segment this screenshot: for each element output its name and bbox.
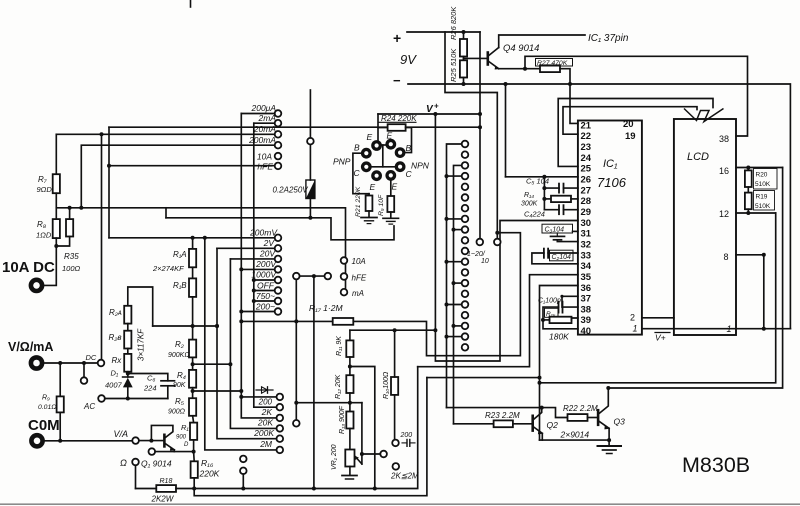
- svg-text:37: 37: [581, 294, 592, 305]
- scan edge bottom: [0, 503, 800, 505]
- wire wiper to bottom rail: [313, 276, 315, 488]
- fuse input contact: [307, 138, 314, 145]
- svg-text:VR₁ 200: VR₁ 200: [331, 444, 338, 470]
- svg-text:30: 30: [581, 218, 592, 229]
- wire R22 to Q3 base: [588, 417, 598, 419]
- wire 1000V contact: [254, 279, 275, 281]
- resistor R15 180K: [545, 308, 559, 317]
- svg-text:+: +: [393, 30, 401, 46]
- transistor Q2: [531, 416, 534, 431]
- socket NPN E top: [385, 139, 396, 150]
- svg-text:PNP: PNP: [333, 157, 351, 167]
- svg-text:29: 29: [581, 207, 592, 218]
- svg-text:C₃104: C₃104: [545, 227, 565, 234]
- voltage range contacts: [275, 235, 282, 242]
- wire IC1 pin2 to LCD: [642, 317, 674, 319]
- resistor R23 2.2M: [494, 420, 513, 427]
- wire R2-R4 tap: [192, 357, 194, 370]
- svg-text:R₂ᴀ: R₂ᴀ: [109, 308, 122, 317]
- svg-text:27: 27: [581, 185, 592, 196]
- svg-text:2mA: 2mA: [258, 113, 277, 123]
- wire bus B to R23: [454, 423, 494, 425]
- svg-text:C0M: C0M: [28, 417, 60, 434]
- resistor R4 90K: [189, 370, 196, 388]
- svg-text:Q4 9014: Q4 9014: [503, 43, 539, 54]
- transistor Q3: [597, 410, 600, 425]
- resistor R19 510K: [747, 187, 749, 193]
- svg-text:R₉: R₉: [42, 395, 50, 402]
- svg-text:C₂104: C₂104: [552, 254, 572, 261]
- wire R11 top rail: [350, 329, 436, 331]
- wire hFE V+ long rail: [109, 126, 480, 128]
- svg-text:R24 220K: R24 220K: [381, 114, 417, 123]
- wire R26 top rail down to V+ pole: [479, 32, 481, 239]
- current range contacts: [275, 110, 282, 117]
- svg-text:20: 20: [623, 119, 634, 130]
- resistor R2B: [127, 324, 129, 331]
- svg-text:22: 22: [581, 131, 592, 142]
- wire NPN E to R9 10ohm: [390, 181, 392, 196]
- wire LCD pin12 row: [736, 212, 776, 214]
- svg-text:38: 38: [581, 304, 592, 315]
- svg-text:34: 34: [581, 261, 592, 272]
- resistor R25 510K: [463, 57, 465, 61]
- svg-text:12: 12: [719, 209, 729, 219]
- svg-text:510K: 510K: [755, 203, 771, 210]
- svg-text:4007: 4007: [105, 381, 123, 390]
- potentiometer VR1 200: [349, 429, 351, 450]
- capacitor C3 symbol: [556, 233, 558, 236]
- wire lower rail to R16: [194, 378, 427, 496]
- svg-text:33: 33: [581, 250, 592, 261]
- wire hFE branch: [108, 127, 110, 238]
- wire -9V rail: [408, 84, 790, 329]
- capacitor C3 104 label box: [542, 224, 573, 233]
- svg-text:V+: V+: [655, 333, 666, 343]
- svg-text:R₁₁ 9K: R₁₁ 9K: [336, 336, 343, 356]
- wire 20V contact to bus: [230, 258, 274, 260]
- wire R25-R26 junction to Q4 base: [464, 57, 488, 59]
- wire 20mA contact to R7: [56, 133, 274, 135]
- switch wiper pair 1000V section: [293, 273, 300, 280]
- svg-text:E: E: [387, 131, 393, 141]
- wire 200mA contact to shunt junction: [81, 145, 274, 208]
- contact V drop: [83, 363, 85, 377]
- ground R21: [361, 217, 377, 219]
- wire R23 to Q2 base: [513, 423, 532, 425]
- contact 2K-2M: [393, 463, 400, 470]
- wire emitter node up-over to LCD pin38: [525, 56, 748, 136]
- IC IC1 7106 body: [578, 121, 642, 335]
- socket PNP C: [361, 161, 372, 172]
- svg-text:R₁₇ 1·2M: R₁₇ 1·2M: [309, 303, 343, 313]
- svg-text:E: E: [370, 182, 376, 192]
- svg-text:10A: 10A: [352, 257, 366, 266]
- wire wiper circle down through R17 line to ohm wiper: [295, 279, 297, 420]
- svg-text:DC: DC: [86, 353, 97, 362]
- fuse 0.2A250V: [309, 145, 311, 181]
- svg-text:35: 35: [581, 272, 592, 283]
- wire R24 right to NPN B: [405, 128, 412, 153]
- resistor R27 470K: [540, 65, 560, 72]
- resistor R12 20K: [349, 357, 351, 375]
- capacitor C2 104: [548, 252, 578, 254]
- wire 200V contact: [241, 268, 274, 270]
- svg-text:2M: 2M: [259, 439, 273, 449]
- wire Q2/Q3 emitters to ground: [541, 433, 543, 440]
- svg-text:26: 26: [581, 174, 592, 185]
- svg-text:C₄224: C₄224: [524, 210, 545, 219]
- resistor R16 220K: [193, 452, 196, 462]
- svg-text:2V: 2V: [263, 238, 276, 248]
- wire Q4 emitter node: [499, 68, 540, 70]
- wire rail pin36 branch lower: [427, 377, 540, 379]
- wire IC1 pin1 V+ row: [642, 328, 791, 330]
- ground R9 socket: [383, 217, 399, 219]
- svg-text:Rx: Rx: [112, 356, 123, 365]
- svg-text:C₁100p: C₁100p: [538, 298, 561, 305]
- svg-text:2K2W: 2K2W: [151, 495, 175, 504]
- svg-text:+: +: [434, 102, 439, 111]
- svg-text:R21 220K: R21 220K: [355, 186, 362, 217]
- svg-text:9V: 9V: [400, 52, 417, 67]
- resistor R22 2.2M: [568, 414, 588, 421]
- svg-text:Q3: Q3: [614, 417, 626, 427]
- wire AC row to D1 and C6: [105, 398, 168, 400]
- wire V jack row: [44, 362, 98, 364]
- wire IC1 pin30 to R11 top rail: [435, 114, 578, 361]
- svg-text:2K≦2M: 2K≦2M: [390, 472, 419, 481]
- wire 2mA contact to bus: [254, 122, 275, 124]
- wire DC contact from 20mA line: [101, 134, 103, 359]
- wire fuse row: [166, 218, 394, 240]
- wire IC1 pin36 to Q2 emitter ground line: [540, 286, 578, 441]
- resistor R2 900K: [189, 340, 196, 358]
- svg-text:R₂: R₂: [175, 340, 184, 349]
- wire socket E-E link: [381, 144, 387, 146]
- svg-text:20V: 20V: [259, 249, 276, 259]
- diode D1 4007: [127, 372, 129, 377]
- resistor R21 220K: [368, 194, 370, 196]
- svg-text:LCD: LCD: [687, 151, 709, 163]
- wire LCD pin16 row: [736, 167, 783, 169]
- svg-text:16: 16: [719, 166, 729, 176]
- wire bus A to Q2 collector and R22: [447, 408, 568, 418]
- svg-text:200mA: 200mA: [248, 135, 276, 145]
- bus 20V/20K vertical: [230, 259, 276, 429]
- svg-text:D: D: [184, 442, 189, 448]
- wire R24 left to PNP E and V+ rail: [378, 128, 388, 142]
- wire R12-R13 junction on wiper line: [349, 393, 351, 412]
- svg-text:0.2A250V: 0.2A250V: [273, 186, 309, 195]
- svg-text:Q₁ 9014: Q₁ 9014: [141, 459, 172, 469]
- wire fuse top: [309, 90, 311, 138]
- svg-text:R25 510K: R25 510K: [449, 48, 458, 82]
- svg-text:C: C: [354, 168, 361, 178]
- svg-text:750~: 750~: [256, 291, 275, 301]
- svg-text:B: B: [354, 143, 360, 153]
- resistor R5 900ohm: [189, 398, 196, 416]
- svg-text:20mA: 20mA: [253, 124, 277, 134]
- wire R1 to Q1 emitter row: [193, 440, 195, 452]
- wire + rail down to switch pole: [445, 32, 497, 239]
- contact cap test 200: [392, 440, 399, 447]
- wire +9V top rail: [407, 31, 480, 33]
- bus 2V/200K vertical: [217, 248, 277, 438]
- svg-text:20K: 20K: [257, 418, 273, 428]
- resistor R20 510K: [747, 168, 749, 171]
- svg-text:R26 820K: R26 820K: [449, 6, 458, 40]
- svg-text:R₁₆: R₁₆: [201, 458, 214, 468]
- resistor R26 820K: [463, 32, 465, 39]
- svg-text:10: 10: [481, 258, 489, 265]
- svg-text:200V: 200V: [255, 259, 277, 269]
- svg-text:R₄: R₄: [177, 371, 186, 380]
- socket PNP B: [361, 148, 372, 159]
- svg-text:E: E: [392, 182, 398, 192]
- svg-text:200: 200: [258, 398, 273, 407]
- wire 750~ contact: [254, 300, 275, 302]
- transistor Q1 9014: [139, 440, 164, 442]
- svg-text:9ΩD: 9ΩD: [37, 185, 53, 194]
- svg-text:510K: 510K: [755, 181, 771, 188]
- socket NPN E bottom: [385, 170, 396, 181]
- wire 200mV line: [109, 237, 275, 239]
- svg-text:R₁B: R₁B: [173, 281, 187, 290]
- switch bus B stubs: [454, 229, 462, 231]
- svg-text:300K: 300K: [521, 201, 538, 208]
- svg-text:25: 25: [581, 164, 592, 175]
- wire COM row to V/A contact: [45, 440, 132, 442]
- bottom rail: [136, 488, 157, 490]
- wire OFF contact: [254, 290, 275, 292]
- svg-text:1: 1: [633, 324, 638, 334]
- svg-text:31: 31: [581, 229, 592, 240]
- bus 200mV/2M vertical: [205, 238, 277, 450]
- svg-text:M830B: M830B: [682, 453, 750, 477]
- svg-text:D₁: D₁: [111, 369, 119, 378]
- wire diode-range contact: [241, 396, 276, 398]
- switch bus A stubs: [447, 175, 462, 177]
- svg-text:3×117KF: 3×117KF: [137, 328, 146, 361]
- capacitor test symbol: [402, 442, 406, 444]
- svg-text:23: 23: [581, 142, 592, 153]
- switch pole contact battery side: [494, 239, 501, 246]
- ground Q3: [598, 445, 622, 447]
- svg-text:200K: 200K: [253, 428, 274, 438]
- wire 2V tap rail: [153, 325, 217, 327]
- svg-text:8: 8: [724, 252, 729, 262]
- wire shunt junction row to mA contact: [56, 208, 345, 289]
- diode test symbol: [256, 389, 273, 391]
- svg-text:R20: R20: [756, 172, 768, 179]
- svg-text:R19: R19: [756, 194, 768, 201]
- resistor R1A 2x274K: [192, 238, 194, 249]
- resistor R7 9ohm: [55, 134, 57, 174]
- svg-text:R35: R35: [64, 252, 79, 261]
- svg-text:0.01Ω: 0.01Ω: [38, 404, 56, 411]
- svg-text:R18: R18: [160, 478, 173, 485]
- svg-text:7106: 7106: [597, 175, 627, 190]
- resistor R35 100ohm: [69, 208, 71, 219]
- wire 200uA contact to bus: [241, 113, 274, 115]
- resistor R11 9K: [349, 330, 351, 340]
- svg-text:32: 32: [581, 239, 592, 250]
- wire pin16 vertical to long rail: [608, 168, 782, 389]
- svg-text:R₇: R₇: [38, 175, 48, 184]
- wire R5 to R1: [193, 416, 194, 423]
- wire wiper chain vertical: [361, 403, 363, 464]
- svg-text:Q2: Q2: [547, 420, 559, 430]
- svg-text:AC: AC: [83, 402, 95, 411]
- svg-text:R₁₂ 20K: R₁₂ 20K: [335, 374, 342, 399]
- resistor R13 900: [346, 412, 353, 429]
- svg-text:R₁₄: R₁₄: [524, 192, 534, 199]
- wire pin12 vertical to long rail: [540, 213, 776, 383]
- resistor R18 2K 2W: [156, 485, 176, 492]
- svg-text:R27 470K: R27 470K: [537, 60, 568, 67]
- wire shunt chain to 10A jack: [44, 238, 56, 285]
- svg-text:hFE: hFE: [352, 274, 367, 283]
- wire 2V contact to bus: [217, 247, 275, 249]
- svg-text:IC₁ 37pin: IC₁ 37pin: [588, 33, 629, 44]
- wire IC1 pin22 to LCD arrow: [563, 107, 697, 135]
- svg-text:Ω: Ω: [120, 458, 127, 468]
- svg-text:19: 19: [625, 131, 636, 142]
- svg-text:38: 38: [719, 134, 729, 144]
- resistor Rx: [127, 349, 129, 354]
- svg-text:200~: 200~: [255, 302, 275, 312]
- svg-text:40: 40: [581, 326, 592, 337]
- svg-text:36: 36: [581, 283, 592, 294]
- svg-text:V/A: V/A: [114, 429, 129, 439]
- svg-text:NPN: NPN: [411, 161, 430, 171]
- wire pin26 branch down to C5/R14/C4: [543, 177, 545, 210]
- wire LCD pin8 row: [736, 254, 764, 256]
- contact ohm: [132, 459, 139, 466]
- svg-text:B: B: [406, 143, 412, 153]
- contact AC: [98, 395, 105, 402]
- svg-text:C: C: [406, 169, 413, 179]
- svg-text:OFF: OFF: [257, 281, 275, 291]
- resistor R8 1ohm: [55, 193, 57, 219]
- socket PNP E bottom: [371, 170, 382, 181]
- svg-text:R23 2.2M: R23 2.2M: [485, 411, 520, 420]
- socket PNP E top: [371, 140, 382, 151]
- svg-text:900: 900: [176, 435, 187, 441]
- wire R17 right loop: [353, 233, 520, 356]
- switch bus A: [447, 144, 462, 408]
- svg-text:R22 2.2M: R22 2.2M: [563, 404, 598, 413]
- svg-text:mA: mA: [352, 289, 364, 298]
- contact V/A: [132, 437, 139, 444]
- svg-text:2×9014: 2×9014: [560, 430, 590, 440]
- svg-text:R₈: R₈: [37, 220, 47, 229]
- svg-text:180K: 180K: [549, 332, 569, 342]
- VR1 wiper arrow: [355, 457, 362, 465]
- wire R4-R5 tap: [192, 388, 194, 399]
- svg-text:900Ω: 900Ω: [168, 409, 186, 416]
- svg-text:1~20/: 1~20/: [467, 251, 486, 258]
- svg-text:21: 21: [581, 120, 592, 131]
- wire Q4 collector to IC1 37pin note: [499, 35, 585, 48]
- resistor R9 10ohm socket: [387, 196, 394, 212]
- wire pin8 vertical: [763, 255, 765, 329]
- svg-text:10A DC: 10A DC: [2, 259, 55, 276]
- svg-text:R₂ʙ: R₂ʙ: [109, 333, 122, 342]
- svg-text:R₁₃ 900F: R₁₃ 900F: [339, 405, 346, 434]
- jack 10A DC: [31, 280, 42, 291]
- svg-text:2: 2: [630, 313, 635, 323]
- wire ohm contact to bottom rail: [135, 465, 137, 488]
- resistor R9 0.01ohm: [59, 363, 61, 396]
- wire PNP B to R21: [353, 153, 369, 194]
- LCD backplane arrow symbol: [684, 109, 724, 122]
- svg-text:2×274KF: 2×274KF: [152, 264, 184, 273]
- resistor R1 900: [190, 423, 197, 440]
- jack V/ohm/mA: [31, 357, 42, 368]
- svg-text:IC₁: IC₁: [603, 158, 618, 170]
- contact DC: [98, 360, 105, 367]
- bus 200uA/200V vertical: [241, 114, 276, 418]
- wire R27 to -9V junction and IC1 pin21: [560, 69, 578, 124]
- svg-text:1ΩD: 1ΩD: [36, 231, 52, 240]
- contact hFE right column: [341, 273, 348, 280]
- wire 200~ contact: [241, 311, 274, 313]
- contact Q1 emitter: [149, 448, 156, 455]
- bus 2mA/1000V vertical: [254, 123, 277, 407]
- wire IC1 pin26 to V- node: [506, 176, 578, 178]
- socket NPN C: [395, 161, 406, 172]
- svg-text:10A: 10A: [257, 152, 272, 162]
- contact 10A right column: [341, 257, 348, 264]
- switch wiper ohms: [293, 420, 300, 427]
- svg-text:200μA: 200μA: [250, 103, 276, 113]
- wire socket C-C link: [371, 166, 397, 168]
- wire IC1 pin25 to LCD arrow: [558, 99, 713, 167]
- wire IC1 pin35 loop to R16: [418, 275, 578, 367]
- resistor R17 1.2M: [241, 320, 332, 322]
- rotary switch wafer contacts column: [462, 141, 469, 148]
- svg-text:900KΩ: 900KΩ: [168, 352, 190, 359]
- ohm range contacts: [277, 394, 284, 401]
- svg-text:E: E: [367, 132, 373, 142]
- wire R11 junction rail drop: [350, 367, 375, 489]
- wire Q1 emitter row: [155, 451, 194, 453]
- svg-text:R₁A: R₁A: [173, 250, 187, 259]
- wire R1B to R2: [192, 297, 194, 340]
- LCD body: [674, 119, 736, 335]
- resistor R1B: [192, 267, 194, 278]
- svg-text:39: 39: [581, 315, 592, 326]
- contact wiper 2: [380, 451, 387, 458]
- svg-text:200: 200: [400, 432, 413, 439]
- transistor Q4 9014: [486, 53, 489, 65]
- ground VR1: [342, 475, 357, 477]
- svg-text:1000V: 1000V: [251, 270, 277, 280]
- svg-text:100Ω: 100Ω: [62, 264, 81, 273]
- svg-text:V/Ω/mA: V/Ω/mA: [8, 340, 53, 354]
- svg-text:220K: 220K: [199, 469, 220, 479]
- socket NPN B: [395, 147, 406, 158]
- jack COM: [31, 435, 42, 446]
- contact mA right column: [341, 289, 348, 296]
- svg-text:C₆: C₆: [147, 374, 155, 383]
- scan tick top: [190, 0, 192, 7]
- svg-text:R₁₀100Ω: R₁₀100Ω: [383, 371, 390, 399]
- resistor R10 100ohm: [391, 377, 398, 395]
- label V+ at IC1 pin1: [655, 332, 670, 334]
